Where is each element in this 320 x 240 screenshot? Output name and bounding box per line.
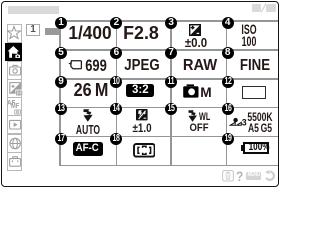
svg-text:3: 3 [242,118,247,126]
